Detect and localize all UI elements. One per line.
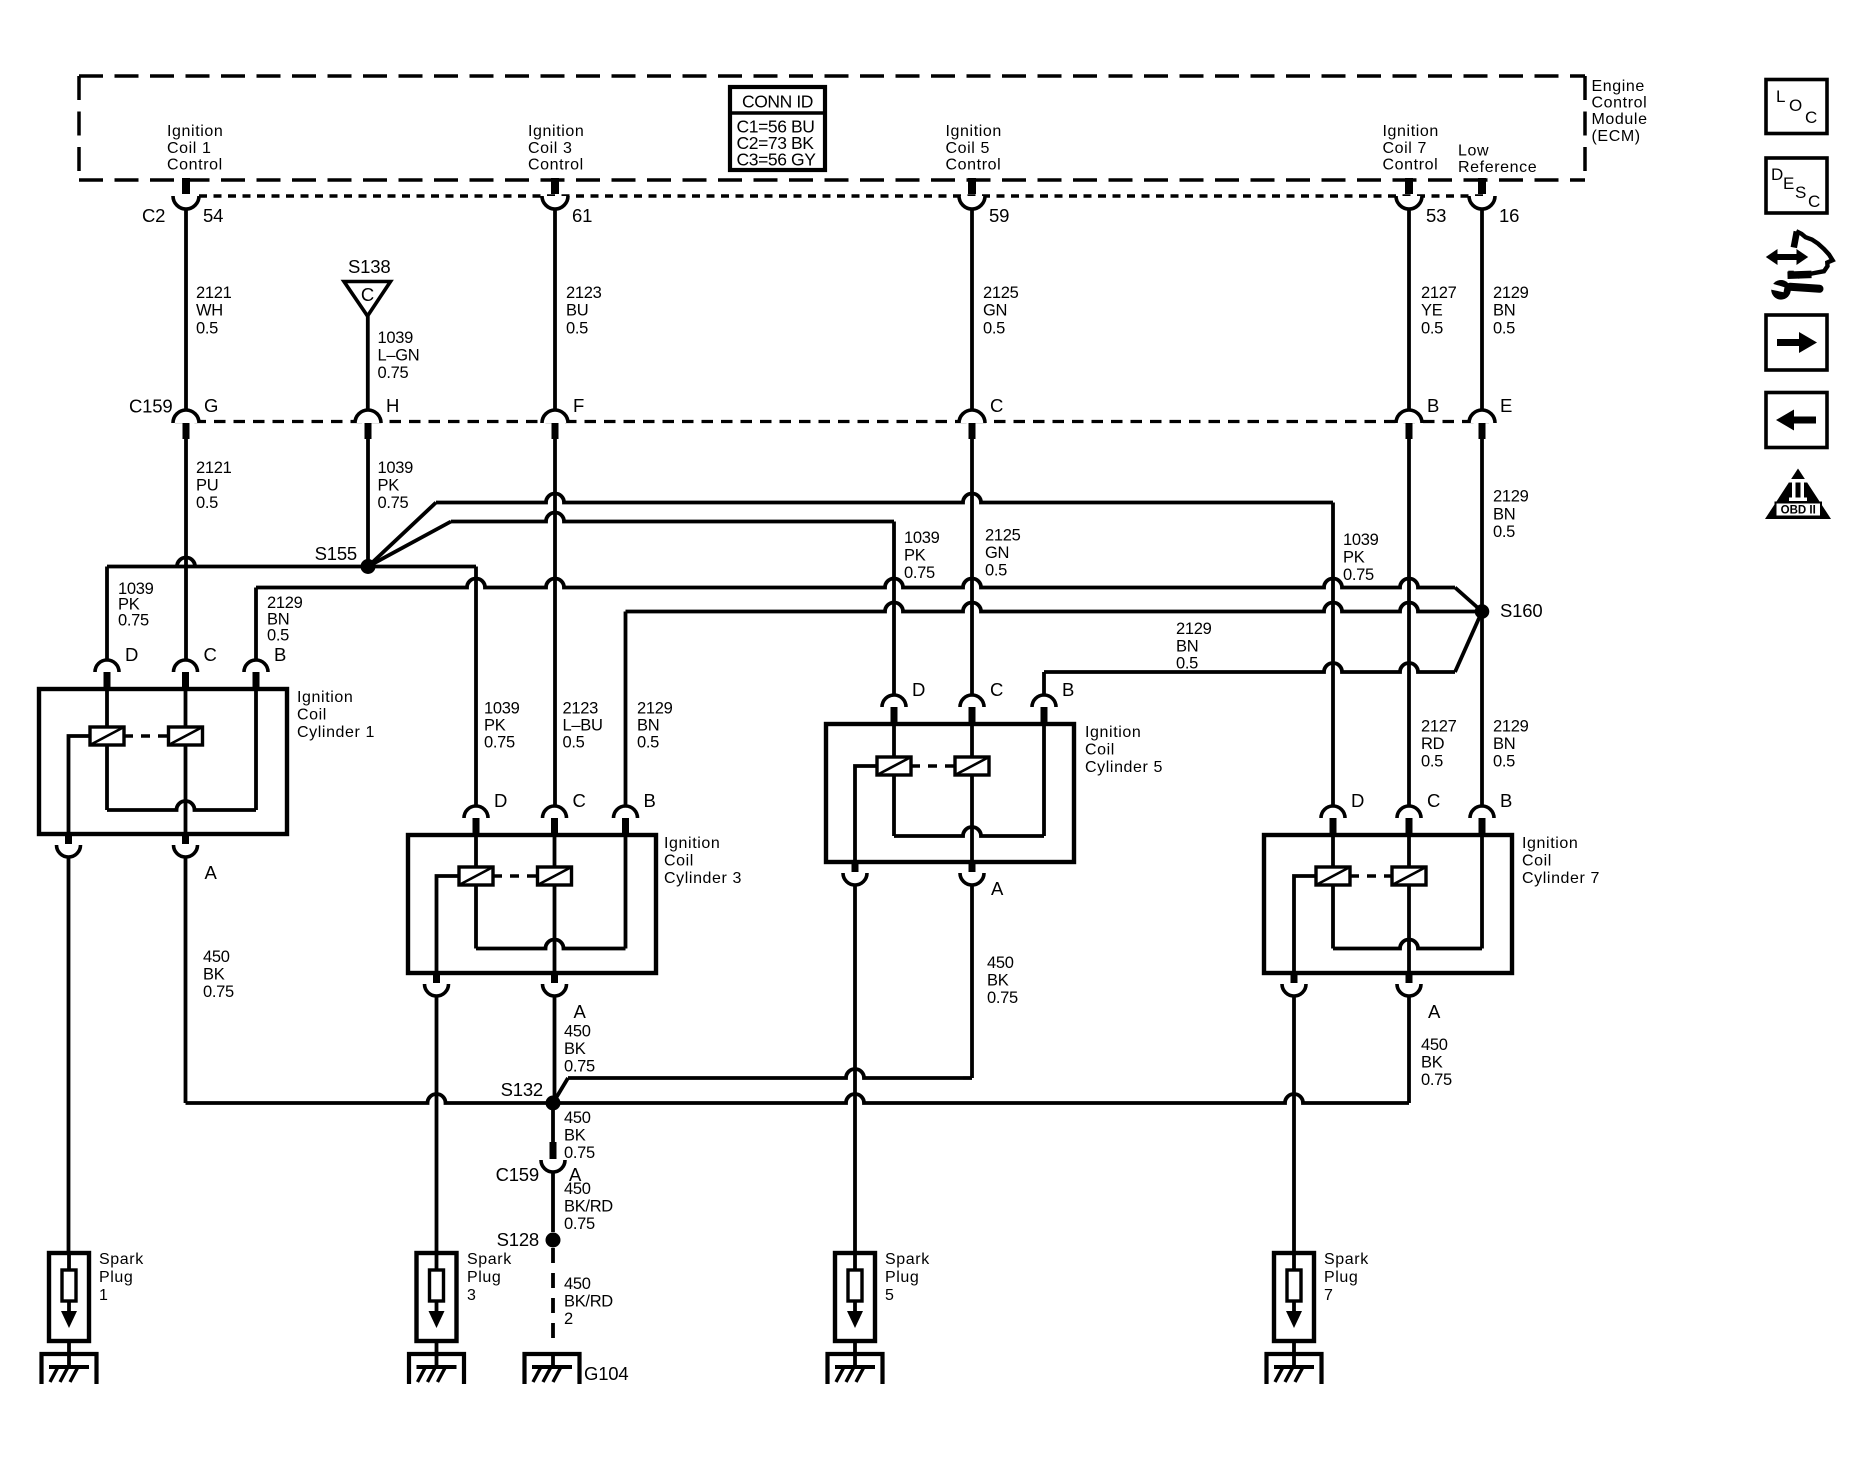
- svg-text:0.75: 0.75: [378, 364, 409, 382]
- coil 3 pin D: [464, 806, 488, 818]
- svg-text:2129: 2129: [1176, 620, 1212, 638]
- svg-text:Module: Module: [1592, 111, 1648, 128]
- coil 7 pin B: [1470, 806, 1494, 818]
- svg-text:7: 7: [1324, 1287, 1334, 1304]
- connector C159 pin G: [173, 410, 199, 423]
- svg-text:Coil: Coil: [664, 853, 694, 870]
- svg-text:PK: PK: [1343, 549, 1365, 567]
- svg-text:Plug: Plug: [467, 1269, 501, 1286]
- wire 450 BK 0.75 (coil 1 pin A to S132 bus): [184, 857, 188, 1103]
- coil 3 spark output pin: [433, 972, 440, 983]
- svg-text:Plug: Plug: [99, 1269, 133, 1286]
- coil 3 winding symbol right: [538, 867, 572, 885]
- svg-text:2: 2: [564, 1310, 573, 1328]
- ignition coil cylinder 7 box: [1264, 835, 1512, 973]
- svg-text:B: B: [274, 644, 286, 665]
- svg-text:54: 54: [203, 205, 223, 226]
- ECM connector pin 59: [968, 178, 976, 194]
- coil 3 pin B: [614, 806, 638, 818]
- wire 2129 BN 0.5 (coil 3 pin B to S160): [624, 612, 628, 807]
- spark plug 5: [835, 1253, 875, 1341]
- coil 7 winding symbol right: [1392, 867, 1426, 885]
- svg-text:L–BU: L–BU: [563, 717, 603, 735]
- svg-text:Ignition: Ignition: [167, 123, 223, 140]
- svg-text:Ignition: Ignition: [664, 835, 720, 852]
- svg-text:G: G: [204, 395, 218, 416]
- svg-text:BN: BN: [1176, 637, 1198, 655]
- svg-text:GN: GN: [983, 302, 1007, 320]
- svg-text:450: 450: [1421, 1036, 1448, 1054]
- wire 450 BK/RD 2 dashed (S128 to G104): [551, 1248, 555, 1344]
- svg-text:0.75: 0.75: [118, 611, 149, 629]
- svg-text:450: 450: [203, 948, 230, 966]
- svg-text:0.75: 0.75: [484, 734, 515, 752]
- coil 5 spark output pin: [852, 861, 859, 872]
- svg-text:2121: 2121: [196, 459, 232, 477]
- coil 3 internal wire D to B link: [474, 835, 478, 867]
- coil 1 winding symbol right: [169, 727, 203, 745]
- svg-text:1039: 1039: [904, 529, 940, 547]
- coil 7 internal wire D to B link: [1331, 835, 1335, 867]
- svg-text:S155: S155: [315, 543, 357, 564]
- connector C159 pin B: [1396, 410, 1422, 423]
- coil 1 winding symbol left: [90, 727, 124, 745]
- wire 1039 PK 0.75 branch S155 to coil 1 pin D: [107, 558, 368, 567]
- wire 1039 PK 0.75 branch S155 to coil 3 pin D: [368, 565, 476, 569]
- svg-text:0.5: 0.5: [563, 734, 585, 752]
- wire 2129 BN 0.5 (coil 5 pin B to S160): [1042, 672, 1046, 696]
- svg-text:2127: 2127: [1421, 284, 1457, 302]
- svg-text:C: C: [204, 644, 217, 665]
- ignition coil cylinder 1 box: [39, 689, 287, 834]
- svg-text:BN: BN: [1493, 302, 1515, 320]
- wire 2125 GN 0.5 (C159 C to coil 5 pin C): [970, 439, 974, 696]
- svg-text:Coil: Coil: [297, 707, 327, 724]
- wire 450 BK 0.75 (coil 5 pin A to S132 bus): [970, 885, 974, 1078]
- svg-text:C: C: [361, 284, 374, 305]
- svg-text:0.5: 0.5: [1421, 753, 1443, 771]
- spark plug 7: [1274, 1253, 1314, 1341]
- ECM connector pin 61: [551, 178, 559, 194]
- svg-text:1039: 1039: [378, 459, 414, 477]
- svg-text:0.75: 0.75: [987, 989, 1018, 1007]
- coil 5 winding symbol left: [877, 757, 911, 775]
- connector C159 dashed line: [175, 420, 1489, 423]
- coil 5 internal wire C through: [970, 724, 974, 757]
- svg-text:PK: PK: [484, 717, 506, 735]
- coil 1 internal wire D to B link: [105, 689, 109, 727]
- icon: DESC box: [1766, 158, 1827, 213]
- svg-text:BK: BK: [203, 966, 225, 984]
- svg-text:Coil 5: Coil 5: [946, 140, 991, 157]
- svg-text:BN: BN: [1493, 505, 1515, 523]
- svg-text:2123: 2123: [566, 284, 602, 302]
- coil 5 internal wire to spark output: [855, 766, 877, 862]
- svg-text:BK: BK: [564, 1040, 586, 1058]
- svg-text:A: A: [574, 1001, 587, 1022]
- ground symbol spark plug 5: [828, 1354, 883, 1384]
- svg-text:BK: BK: [1421, 1054, 1443, 1072]
- coil 3 pin C: [543, 806, 567, 818]
- svg-text:Ignition: Ignition: [1085, 724, 1141, 741]
- svg-text:1: 1: [99, 1287, 109, 1304]
- svg-text:Engine: Engine: [1592, 78, 1645, 95]
- coil 7 internal wire to spark output: [1294, 876, 1316, 973]
- splice S160 junction dot: [1475, 604, 1490, 619]
- coil 3 pin A: [551, 972, 558, 983]
- svg-text:O: O: [1789, 96, 1802, 115]
- wire spark plug 7 to ground: [1292, 1341, 1296, 1367]
- wire 1039 PK 0.75 branch S155 to coil 5 pin D (second bus): [368, 522, 451, 567]
- svg-text:61: 61: [572, 205, 592, 226]
- coil 7 winding symbol left: [1316, 867, 1350, 885]
- svg-text:PK: PK: [904, 547, 926, 565]
- svg-text:S: S: [1795, 183, 1806, 202]
- svg-text:Coil 1: Coil 1: [167, 140, 212, 157]
- svg-text:Coil 7: Coil 7: [1383, 140, 1428, 157]
- svg-text:WH: WH: [196, 302, 223, 320]
- svg-text:0.5: 0.5: [637, 734, 659, 752]
- svg-text:PU: PU: [196, 477, 218, 495]
- icon: diagnostic wrench symbol: [1761, 231, 1833, 299]
- coil 1 pin A: [182, 833, 189, 844]
- svg-text:F: F: [573, 395, 584, 416]
- svg-text:3: 3: [467, 1287, 477, 1304]
- svg-text:Coil 3: Coil 3: [528, 140, 573, 157]
- wire 2123 BU 0.5 (pin 61 to C159 F): [553, 209, 557, 410]
- svg-text:450: 450: [987, 954, 1014, 972]
- svg-text:C: C: [1805, 108, 1817, 127]
- svg-text:Control: Control: [1383, 157, 1439, 174]
- svg-text:Cylinder 3: Cylinder 3: [664, 870, 742, 887]
- splice S132 junction dot: [546, 1096, 561, 1111]
- wire 2127 RD 0.5 (C159 B to coil 7 pin C): [1407, 439, 1411, 806]
- wire 2121 WH 0.5 (pin 54 to C159 G): [184, 209, 188, 410]
- svg-text:450: 450: [564, 1180, 591, 1198]
- svg-text:C: C: [1427, 790, 1440, 811]
- svg-text:H: H: [386, 395, 399, 416]
- svg-text:2123: 2123: [563, 700, 599, 718]
- svg-text:D: D: [1351, 790, 1364, 811]
- svg-text:Reference: Reference: [1458, 159, 1537, 176]
- connector C159 pin H: [355, 410, 381, 423]
- svg-text:0.5: 0.5: [267, 627, 289, 645]
- connector C159 pin A (lower): [550, 1142, 557, 1159]
- wire 450 BK 0.75 (S132 to C159 A): [551, 1103, 555, 1143]
- connector C159 pin C: [959, 410, 985, 423]
- CONN ID table box: [730, 87, 825, 170]
- svg-text:A: A: [1428, 1001, 1441, 1022]
- svg-text:D: D: [125, 644, 138, 665]
- svg-text:Plug: Plug: [885, 1269, 919, 1286]
- wire spark plug 7 lead (coil 7 output): [1292, 996, 1296, 1253]
- svg-text:Ignition: Ignition: [1383, 123, 1439, 140]
- ignition coil cylinder 3 box: [408, 835, 656, 973]
- svg-text:Coil: Coil: [1522, 853, 1552, 870]
- wire spark plug 3 to ground: [435, 1341, 439, 1367]
- svg-text:Spark: Spark: [885, 1251, 930, 1268]
- svg-text:0.5: 0.5: [985, 562, 1007, 580]
- svg-text:450: 450: [564, 1023, 591, 1041]
- svg-text:Spark: Spark: [467, 1251, 512, 1268]
- svg-text:YE: YE: [1421, 302, 1443, 320]
- svg-text:Ignition: Ignition: [297, 689, 353, 706]
- coil 5 winding symbol right: [955, 757, 989, 775]
- wire 450 BK 0.75 (coil 7 pin A to S132 bus): [1407, 996, 1411, 1103]
- svg-text:2129: 2129: [1493, 718, 1529, 736]
- svg-text:Ignition: Ignition: [1522, 835, 1578, 852]
- svg-text:Control: Control: [1592, 95, 1648, 112]
- svg-text:0.75: 0.75: [378, 494, 409, 512]
- coil 3 internal wire to spark output: [437, 876, 460, 973]
- svg-text:B: B: [1500, 790, 1512, 811]
- wire 1039 PK 0.75 branch S155 to coil 7 pin D (upper bus): [368, 503, 436, 567]
- svg-text:CONN ID: CONN ID: [742, 92, 813, 112]
- svg-text:C2: C2: [142, 205, 165, 226]
- svg-text:BK/RD: BK/RD: [564, 1198, 613, 1216]
- svg-text:53: 53: [1426, 205, 1446, 226]
- svg-text:1039: 1039: [378, 329, 414, 347]
- svg-text:B: B: [1427, 395, 1439, 416]
- svg-text:Plug: Plug: [1324, 1269, 1358, 1286]
- svg-text:Spark: Spark: [1324, 1251, 1369, 1268]
- svg-text:GN: GN: [985, 544, 1009, 562]
- wire 2127 YE 0.5 (pin 53 to C159 B): [1407, 209, 1411, 410]
- coil 5 internal wire D to B link: [892, 724, 896, 757]
- wire spark plug 5 lead (coil 5 output): [853, 885, 857, 1253]
- svg-text:S160: S160: [1500, 600, 1542, 621]
- svg-text:S138: S138: [348, 256, 390, 277]
- svg-text:L–GN: L–GN: [378, 347, 420, 365]
- svg-text:2129: 2129: [1493, 488, 1529, 506]
- svg-text:2125: 2125: [985, 527, 1021, 545]
- svg-text:B: B: [1062, 679, 1074, 700]
- svg-text:0.75: 0.75: [203, 983, 234, 1001]
- wire 2123 L-BU 0.5 (C159 F to coil 3 pin C): [553, 439, 557, 806]
- svg-text:5: 5: [885, 1287, 895, 1304]
- svg-text:BN: BN: [637, 717, 659, 735]
- svg-text:C159: C159: [129, 396, 172, 417]
- ground symbol spark plug 7: [1267, 1354, 1322, 1384]
- svg-text:G104: G104: [584, 1363, 628, 1384]
- svg-text:S128: S128: [497, 1229, 539, 1250]
- wire spark plug 3 lead (coil 3 output): [435, 996, 439, 1253]
- wire spark plug 1 to ground: [67, 1341, 71, 1367]
- icon: forward arrow box: [1766, 315, 1827, 370]
- svg-text:L: L: [1776, 87, 1785, 106]
- wire 450 BK/RD 0.75 (C159 A to S128): [551, 1172, 555, 1232]
- svg-text:Spark: Spark: [99, 1251, 144, 1268]
- coil 7 winding dashed link: [1350, 874, 1392, 877]
- svg-text:C: C: [990, 679, 1003, 700]
- wire 450 BK ground bus upper branch (S132 to coil 5 pin A): [553, 1078, 568, 1103]
- svg-text:0.5: 0.5: [983, 319, 1005, 337]
- coil 7 internal wire C through: [1407, 835, 1411, 867]
- coil 1 internal wire C through: [184, 689, 188, 727]
- svg-text:2129: 2129: [267, 594, 303, 612]
- svg-text:2129: 2129: [637, 700, 673, 718]
- splice S155 junction dot: [361, 559, 376, 574]
- ground G104: [551, 1352, 555, 1367]
- ECM connector pin 53: [1405, 178, 1413, 194]
- ECM connector pin 16: [1478, 178, 1486, 194]
- ECM connector pin 54: [182, 178, 190, 194]
- wire 1039 L-GN 0.75 (S138 to C159 H): [366, 316, 370, 410]
- coil 5 pin A: [969, 861, 976, 872]
- coil 5 pin D: [882, 695, 906, 707]
- svg-text:1039: 1039: [484, 700, 520, 718]
- svg-text:16: 16: [1499, 205, 1519, 226]
- svg-text:450: 450: [564, 1275, 591, 1293]
- ECM module dashed outline box: [79, 76, 1585, 180]
- svg-text:0.5: 0.5: [1493, 523, 1515, 541]
- svg-text:BU: BU: [566, 302, 588, 320]
- svg-text:0.5: 0.5: [196, 494, 218, 512]
- svg-text:2121: 2121: [196, 284, 232, 302]
- splice S128 junction dot: [546, 1233, 561, 1248]
- ignition coil cylinder 5 box: [826, 724, 1074, 862]
- svg-text:0.5: 0.5: [1421, 319, 1443, 337]
- wire 2129 BN 0.5 (coil 1 pin B to S160): [254, 588, 258, 662]
- svg-text:BK/RD: BK/RD: [564, 1293, 613, 1311]
- svg-text:0.5: 0.5: [1493, 319, 1515, 337]
- spark plug 1: [49, 1253, 89, 1341]
- wire 2121 PU 0.5 (C159 G to coil 1 pin C): [184, 439, 188, 661]
- svg-text:E: E: [1783, 174, 1794, 193]
- svg-text:Ignition: Ignition: [946, 123, 1002, 140]
- svg-text:S132: S132: [501, 1079, 543, 1100]
- wire 1039 PK 0.75 (C159 H to splice S155): [366, 439, 370, 567]
- svg-text:C159: C159: [496, 1164, 539, 1185]
- svg-text:C3=56 GY: C3=56 GY: [737, 149, 817, 169]
- svg-text:0.75: 0.75: [564, 1215, 595, 1233]
- svg-text:2125: 2125: [983, 284, 1019, 302]
- svg-text:BK: BK: [987, 972, 1009, 990]
- coil 3 internal wire C through: [553, 835, 557, 867]
- coil 7 pin C: [1397, 806, 1421, 818]
- svg-text:0.75: 0.75: [564, 1058, 595, 1076]
- svg-text:Control: Control: [946, 157, 1002, 174]
- svg-text:PK: PK: [378, 477, 400, 495]
- svg-text:A: A: [991, 878, 1004, 899]
- icon: OBD II triangle: [1765, 469, 1831, 520]
- svg-text:0.75: 0.75: [904, 564, 935, 582]
- svg-text:1039: 1039: [1343, 531, 1379, 549]
- svg-text:(ECM): (ECM): [1592, 128, 1641, 145]
- coil 1 internal wire to spark output: [69, 736, 91, 834]
- coil 7 pin D: [1321, 806, 1345, 818]
- coil 1 pin D: [95, 660, 119, 672]
- svg-text:Coil: Coil: [1085, 742, 1115, 759]
- svg-text:2127: 2127: [1421, 718, 1457, 736]
- wire spark plug 5 to ground: [853, 1341, 857, 1367]
- svg-text:BK: BK: [564, 1127, 586, 1145]
- coil 5 winding dashed link: [911, 764, 955, 767]
- svg-text:0.75: 0.75: [564, 1144, 595, 1162]
- svg-text:0.5: 0.5: [1493, 753, 1515, 771]
- ground symbol spark plug 3: [409, 1354, 464, 1384]
- svg-text:0.5: 0.5: [566, 319, 588, 337]
- wire spark plug 1 lead (coil 1 output): [67, 857, 71, 1253]
- svg-text:E: E: [1500, 395, 1512, 416]
- svg-text:59: 59: [989, 205, 1009, 226]
- wire 2129 BN 0.5 (pin 16 to C159 E): [1480, 209, 1484, 410]
- svg-text:Cylinder 1: Cylinder 1: [297, 724, 375, 741]
- coil 7 pin A: [1406, 972, 1413, 983]
- wire 2125 GN 0.5 (pin 59 to C159 C): [970, 209, 974, 410]
- svg-text:2129: 2129: [1493, 284, 1529, 302]
- svg-text:OBD II: OBD II: [1781, 505, 1816, 517]
- svg-text:Low: Low: [1458, 143, 1489, 160]
- connector C159 pin E: [1469, 410, 1495, 423]
- svg-text:C: C: [1808, 192, 1820, 211]
- svg-text:Cylinder 5: Cylinder 5: [1085, 759, 1163, 776]
- svg-text:0.75: 0.75: [1421, 1071, 1452, 1089]
- svg-text:RD: RD: [1421, 735, 1445, 753]
- coil 1 pin C: [174, 660, 198, 672]
- svg-text:Control: Control: [528, 157, 584, 174]
- coil 3 winding symbol left: [459, 867, 493, 885]
- svg-text:A: A: [205, 862, 218, 883]
- svg-text:BN: BN: [267, 610, 289, 628]
- ground symbol spark plug 1: [42, 1354, 97, 1384]
- svg-text:C: C: [573, 790, 586, 811]
- icon: back arrow box: [1766, 393, 1827, 448]
- svg-text:BN: BN: [1493, 735, 1515, 753]
- svg-text:D: D: [1771, 165, 1783, 184]
- connector C2 dotted line: [199, 194, 1489, 197]
- wire 2129 BN 0.5 (C159 E to splice S160 to coil 7 pin B): [1480, 439, 1484, 806]
- coil 3 winding dashed link: [493, 874, 538, 877]
- svg-text:Control: Control: [167, 157, 223, 174]
- svg-text:Ignition: Ignition: [528, 123, 584, 140]
- coil 1 spark output pin: [65, 833, 72, 844]
- connector C159 pin F: [542, 410, 568, 423]
- svg-text:0.75: 0.75: [1343, 566, 1374, 584]
- coil 1 winding dashed link: [124, 734, 169, 737]
- svg-text:Cylinder 7: Cylinder 7: [1522, 870, 1600, 887]
- svg-text:D: D: [912, 679, 925, 700]
- spark plug 3: [417, 1253, 457, 1341]
- svg-text:C: C: [990, 395, 1003, 416]
- coil 5 pin C: [960, 695, 984, 707]
- svg-text:0.5: 0.5: [1176, 655, 1198, 673]
- coil 7 spark output pin: [1291, 972, 1298, 983]
- svg-text:D: D: [494, 790, 507, 811]
- svg-text:450: 450: [564, 1109, 591, 1127]
- wire 450 BK 0.75 (coil 3 pin A to S132): [553, 996, 557, 1103]
- svg-text:B: B: [644, 790, 656, 811]
- coil 1 pin B: [244, 660, 268, 672]
- svg-text:0.5: 0.5: [196, 319, 218, 337]
- coil 5 pin B: [1032, 695, 1056, 707]
- icon: LOC box: [1766, 80, 1827, 134]
- wire 450 BK ground bus (coil 1 A to coil 7 A through S132): [186, 1094, 1410, 1103]
